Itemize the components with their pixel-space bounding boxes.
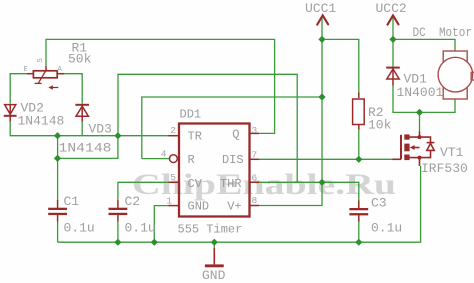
svg-text:R: R xyxy=(188,153,195,167)
svg-text:0.1u: 0.1u xyxy=(64,221,95,236)
svg-text:Q: Q xyxy=(232,128,239,142)
svg-text:5: 5 xyxy=(170,172,176,183)
svg-text:DIS: DIS xyxy=(222,153,244,167)
svg-text:C2: C2 xyxy=(125,194,141,209)
svg-text:0.1u: 0.1u xyxy=(371,221,402,236)
svg-text:1N4148: 1N4148 xyxy=(18,114,65,129)
svg-text:4: 4 xyxy=(161,149,167,160)
svg-text:10k: 10k xyxy=(368,118,392,133)
svg-text:CV: CV xyxy=(188,177,203,191)
svg-text:TR: TR xyxy=(188,129,202,143)
svg-text:E: E xyxy=(24,66,28,74)
svg-text:UCC1: UCC1 xyxy=(305,1,336,16)
svg-text:6: 6 xyxy=(252,173,258,184)
svg-text:GND: GND xyxy=(188,200,210,214)
svg-text:GND: GND xyxy=(202,268,226,283)
svg-text:THR: THR xyxy=(220,177,242,191)
svg-text:3: 3 xyxy=(252,125,258,136)
svg-text:1N4148: 1N4148 xyxy=(59,141,112,156)
svg-text:UCC2: UCC2 xyxy=(376,1,407,16)
svg-text:VT1: VT1 xyxy=(440,145,464,160)
svg-text:1: 1 xyxy=(166,196,172,207)
svg-text:0.1u: 0.1u xyxy=(125,221,156,236)
svg-text:7: 7 xyxy=(252,150,258,161)
svg-text:C1: C1 xyxy=(64,194,80,209)
svg-text:1N4001: 1N4001 xyxy=(397,85,444,100)
svg-text:A: A xyxy=(58,66,63,74)
svg-text:C3: C3 xyxy=(371,196,387,211)
svg-text:IRF530: IRF530 xyxy=(421,161,468,176)
svg-text:555 Timer: 555 Timer xyxy=(178,223,243,237)
svg-text:DD1: DD1 xyxy=(180,108,202,122)
svg-text:50k: 50k xyxy=(68,52,92,67)
svg-text:S: S xyxy=(37,58,45,62)
svg-text:8: 8 xyxy=(252,195,258,206)
svg-text:VD3: VD3 xyxy=(89,122,112,137)
svg-text:DC Motor: DC Motor xyxy=(413,25,473,40)
svg-text:V+: V+ xyxy=(227,200,241,214)
svg-text:2: 2 xyxy=(170,125,176,136)
